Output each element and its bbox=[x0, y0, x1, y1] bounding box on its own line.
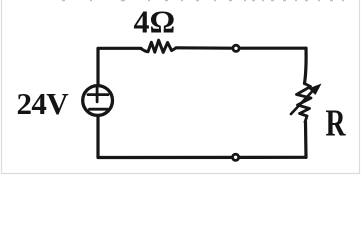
node terminal (bottom) bbox=[233, 154, 239, 160]
svg-text:R: R bbox=[326, 102, 347, 144]
variable resistor arrow shaft bbox=[291, 90, 314, 114]
variable resistor R (zigzag) bbox=[297, 84, 312, 123]
voltage source minus bbox=[90, 108, 108, 111]
wire: resistor to top-right corner bbox=[176, 46, 306, 50]
wire: top segment from source to resistor bbox=[98, 48, 141, 85]
svg-text:4Ω: 4Ω bbox=[134, 4, 176, 40]
resistor R1 4ohm bbox=[141, 40, 176, 52]
wire: right side lower bbox=[304, 122, 308, 157]
node terminal (top) bbox=[233, 45, 239, 51]
wire: bottom bbox=[98, 116, 306, 158]
svg-text:24V: 24V bbox=[17, 86, 70, 121]
wire: right side upper bbox=[305, 48, 307, 83]
voltage source V1 circle bbox=[83, 86, 113, 116]
variable resistor arrowhead bbox=[309, 84, 322, 96]
voltage source plus bbox=[88, 86, 108, 102]
frame edges (decorative) bbox=[2, 0, 360, 174]
